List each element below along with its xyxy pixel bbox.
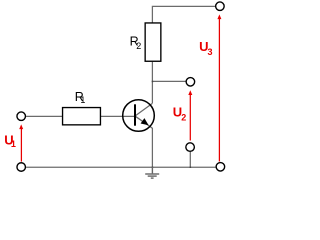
wire R2 bottom to collector xyxy=(151,62,153,103)
svg-text:1: 1 xyxy=(11,139,16,149)
voltage arrow U2 xyxy=(188,90,192,140)
resistor R2 xyxy=(145,23,161,61)
svg-text:2: 2 xyxy=(136,41,141,51)
voltage arrow U3 xyxy=(217,14,221,161)
terminal U2 bottom xyxy=(186,143,195,152)
terminal supply bottom right xyxy=(216,163,225,172)
svg-text:1: 1 xyxy=(80,95,85,105)
terminal input bottom xyxy=(17,163,26,172)
junction collector branch node xyxy=(152,81,154,83)
ground xyxy=(145,167,159,178)
voltage arrow U1 xyxy=(19,124,23,161)
wire emitter down xyxy=(151,128,153,167)
transistor Q1 collector lead xyxy=(135,103,152,116)
wire R1 to base xyxy=(101,115,135,117)
transistor Q1 emitter arrow xyxy=(141,118,149,125)
wire bottom rail xyxy=(26,166,215,168)
wire U2 bottom terminal stub xyxy=(189,152,191,167)
resistor R1 xyxy=(63,108,101,125)
transistor Q1 base bar xyxy=(134,104,136,125)
svg-text:2: 2 xyxy=(181,112,186,122)
wire top rail xyxy=(152,6,215,23)
junction U2 stub bottom rail node xyxy=(190,167,192,169)
wire collector branch to U2 terminal xyxy=(152,80,186,82)
terminal input top xyxy=(17,112,26,121)
terminal supply top right xyxy=(216,2,225,11)
transistor Q1 emitter lead xyxy=(135,116,152,128)
junction emitter bottom rail node xyxy=(152,167,154,169)
svg-text:3: 3 xyxy=(208,47,213,57)
wire input terminal to R1 xyxy=(26,115,62,117)
transistor Q1 circle xyxy=(123,100,155,132)
terminal U2 top xyxy=(186,78,195,87)
